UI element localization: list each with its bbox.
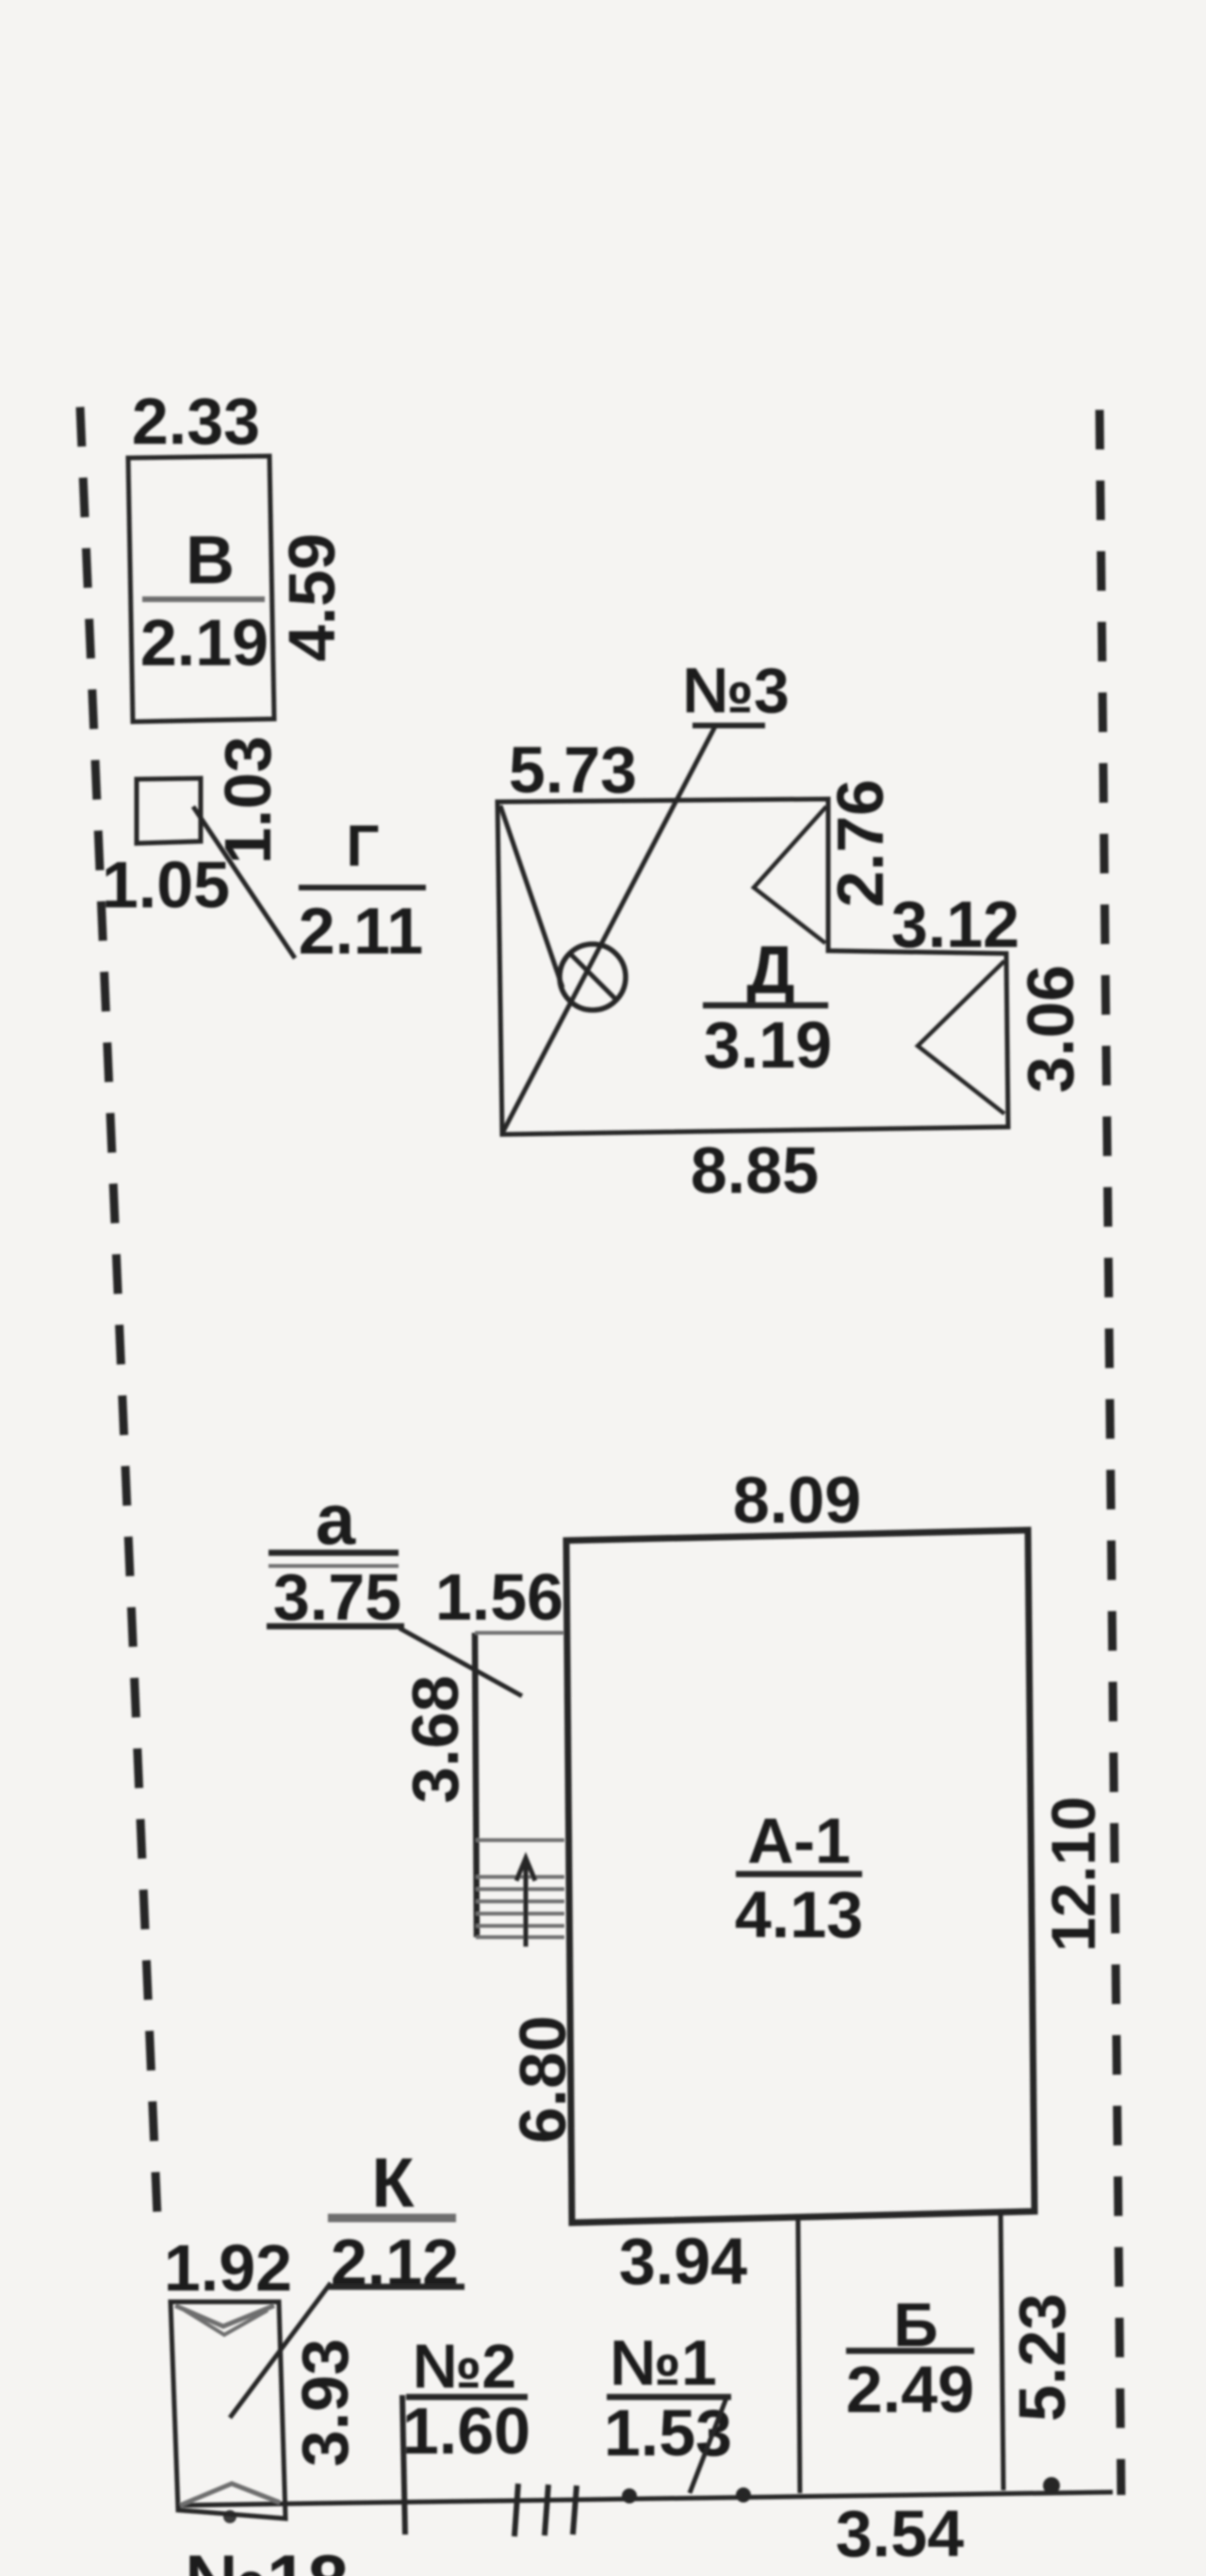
label G underline bbox=[299, 885, 426, 890]
leader line a bbox=[399, 1628, 522, 1696]
svg-text:В: В bbox=[186, 523, 235, 598]
D inner diagonal bbox=[500, 806, 562, 987]
svg-text:3.06: 3.06 bbox=[1014, 965, 1087, 1093]
svg-text:5.73: 5.73 bbox=[509, 733, 637, 807]
porch stair top line bbox=[476, 1838, 564, 1842]
svg-text:3.12: 3.12 bbox=[891, 888, 1019, 961]
svg-text:6.80: 6.80 bbox=[506, 2015, 579, 2144]
svg-text:1.60: 1.60 bbox=[402, 2394, 530, 2468]
boundary tick 3 bbox=[573, 2486, 577, 2535]
leader line No1 bbox=[690, 2398, 726, 2493]
stair line 5 bbox=[476, 1924, 564, 1928]
label No2 underline bbox=[406, 2394, 528, 2401]
right boundary dashed line bbox=[1100, 410, 1121, 2495]
porch top edge bbox=[475, 1631, 563, 1635]
K top hatch chevron 1 bbox=[175, 2306, 274, 2326]
porch left edge bbox=[475, 1633, 477, 1937]
svg-text:3.54: 3.54 bbox=[836, 2497, 964, 2570]
porch bottom edge bbox=[476, 1935, 564, 1939]
bottom boundary line bbox=[176, 2492, 1113, 2505]
D notch triangle 1 bbox=[754, 807, 826, 943]
label 2.12 underline bbox=[329, 2284, 464, 2291]
leader line K bbox=[230, 2283, 331, 2418]
svg-text:1.05: 1.05 bbox=[102, 848, 230, 921]
stair line 1 bbox=[476, 1875, 564, 1879]
K bottom hatch chevron bbox=[180, 2484, 280, 2505]
label K underline bbox=[328, 2214, 456, 2223]
label a underline 2 bbox=[269, 1564, 399, 1568]
svg-text:№3: №3 bbox=[682, 655, 790, 726]
stair arrow head bbox=[516, 1858, 535, 1881]
label No3 underline bbox=[693, 723, 765, 728]
label V underline bbox=[142, 596, 265, 602]
label A-1 underline bbox=[736, 1871, 862, 1878]
svg-text:3.94: 3.94 bbox=[619, 2225, 747, 2298]
well symbol cross stroke bbox=[570, 954, 617, 1001]
svg-text:1.03: 1.03 bbox=[211, 736, 285, 864]
svg-text:8.09: 8.09 bbox=[733, 1463, 861, 1537]
wall line right of B bbox=[1001, 2211, 1003, 2490]
svg-text:12.10: 12.10 bbox=[1038, 1796, 1108, 1951]
svg-text:2.76: 2.76 bbox=[823, 779, 897, 907]
svg-text:4.59: 4.59 bbox=[275, 533, 349, 661]
boundary tick 2 bbox=[545, 2485, 548, 2535]
svg-text:4.13: 4.13 bbox=[735, 1878, 863, 1951]
stair arrow shaft bbox=[524, 1862, 529, 1947]
boundary dot 4 (below K) bbox=[223, 2510, 236, 2523]
stair line 2 bbox=[476, 1887, 564, 1891]
svg-text:3.68: 3.68 bbox=[399, 1675, 472, 1803]
stair line 4 bbox=[476, 1912, 564, 1916]
boundary tick 1 bbox=[514, 2484, 518, 2536]
svg-text:2.49: 2.49 bbox=[846, 2353, 974, 2426]
label B underline bbox=[846, 2348, 974, 2355]
svg-text:2.19: 2.19 bbox=[140, 606, 269, 679]
svg-text:1.56: 1.56 bbox=[435, 1560, 563, 1634]
wall line left of B bbox=[798, 2220, 800, 2493]
building G square bbox=[137, 778, 201, 843]
svg-text:3.19: 3.19 bbox=[704, 1008, 832, 1082]
boundary dot 2 bbox=[736, 2487, 751, 2503]
svg-text:2.11: 2.11 bbox=[299, 894, 423, 968]
label No1 underline bbox=[607, 2394, 731, 2401]
svg-text:№18: №18 bbox=[185, 2539, 349, 2576]
building A-1 outline bbox=[566, 1530, 1035, 2223]
svg-text:Г: Г bbox=[346, 814, 379, 879]
building K outline bbox=[171, 2302, 285, 2519]
No2 drop line bbox=[402, 2395, 405, 2535]
building V outline bbox=[128, 456, 274, 722]
svg-text:а: а bbox=[316, 1480, 356, 1560]
svg-text:3.93: 3.93 bbox=[288, 2339, 362, 2467]
leader line No3 bbox=[503, 726, 715, 1132]
svg-text:2.33: 2.33 bbox=[132, 384, 260, 458]
leader line G bbox=[193, 807, 295, 958]
well symbol circle bbox=[560, 944, 626, 1010]
svg-text:Д: Д bbox=[746, 933, 794, 1008]
svg-text:5.23: 5.23 bbox=[1005, 2293, 1079, 2421]
svg-text:1.92: 1.92 bbox=[164, 2231, 292, 2305]
label a underline 1 bbox=[269, 1550, 399, 1557]
svg-text:8.85: 8.85 bbox=[691, 1133, 819, 1207]
label 3.75 underline bbox=[267, 1623, 404, 1630]
svg-text:№1: №1 bbox=[610, 2327, 717, 2399]
svg-text:3.75: 3.75 bbox=[273, 1560, 401, 1634]
boundary dot 1 bbox=[622, 2488, 637, 2503]
K top hatch chevron 2 bbox=[185, 2310, 268, 2335]
svg-text:А-1: А-1 bbox=[747, 1805, 851, 1877]
stair line 3 bbox=[476, 1899, 564, 1903]
boundary dot 3 bbox=[1043, 2477, 1060, 2494]
building D outline bbox=[497, 799, 1008, 1134]
left boundary dashed line bbox=[80, 407, 158, 2239]
D notch triangle 2 bbox=[918, 961, 1004, 1114]
svg-text:№2: №2 bbox=[413, 2331, 516, 2401]
svg-text:К: К bbox=[371, 2144, 415, 2222]
label D underline bbox=[703, 1003, 828, 1009]
